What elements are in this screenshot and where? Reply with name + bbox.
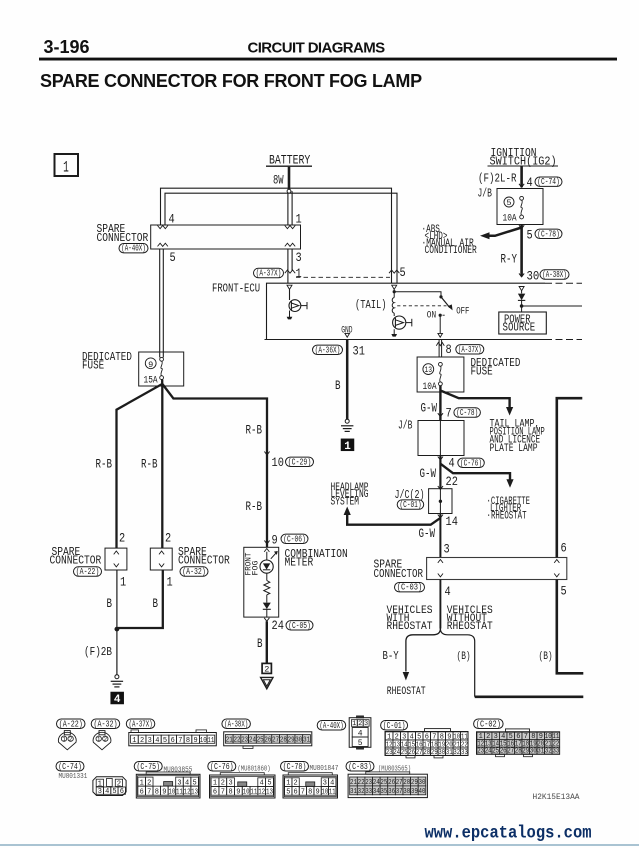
svg-text:2: 2 — [140, 737, 145, 745]
svg-text:1: 1 — [97, 736, 101, 743]
ecu pin 5 entry triangle — [392, 285, 397, 289]
branch arrow to cigarette lighter — [440, 464, 510, 480]
junction relay top — [393, 290, 396, 293]
svg-text:8: 8 — [446, 342, 452, 357]
svg-text:10A: 10A — [503, 212, 517, 223]
dedicated fuse 13 box — [417, 357, 464, 392]
svg-text:23: 23 — [477, 748, 484, 756]
svg-text:8: 8 — [308, 788, 313, 796]
svg-text:1: 1 — [63, 159, 69, 177]
svg-text:25: 25 — [257, 737, 264, 745]
svg-text:(B): (B) — [457, 651, 471, 663]
fuse 10A dedicated — [439, 362, 443, 366]
svg-text:(B): (B) — [539, 651, 553, 663]
svg-text:33: 33 — [461, 749, 468, 757]
svg-text:3: 3 — [98, 788, 103, 796]
svg-text:(A-38X): (A-38X) — [542, 269, 567, 280]
svg-text:5: 5 — [527, 228, 533, 243]
svg-text:38: 38 — [403, 788, 410, 796]
svg-text:CIRCUIT DIAGRAMS: CIRCUIT DIAGRAMS — [248, 40, 386, 57]
svg-text:(A-38X): (A-38X) — [224, 718, 248, 729]
svg-text:29: 29 — [288, 737, 295, 745]
connector label C-05 — [286, 620, 313, 631]
svg-text:11: 11 — [250, 788, 257, 796]
svg-text:(MU801860): (MU801860) — [238, 765, 271, 773]
ground symbol 31 — [345, 419, 349, 423]
J/B box 2 — [418, 421, 464, 456]
svg-text:R-B: R-B — [141, 457, 158, 471]
junction grounds — [115, 627, 120, 632]
svg-text:6: 6 — [213, 788, 218, 796]
wire A-40X pin 5 down to fuse — [159, 249, 161, 358]
wire LED to resistor — [266, 573, 268, 580]
svg-text:10: 10 — [321, 788, 328, 796]
legend connector A-32 drawing — [99, 731, 105, 735]
svg-text:13: 13 — [266, 788, 273, 796]
svg-text:MU803855: MU803855 — [164, 766, 193, 774]
body ground symbol — [261, 677, 273, 688]
wire pin 5 down B — [557, 580, 584, 674]
fuse 10A in J/B — [520, 196, 524, 200]
J/B box with fuse 5 — [497, 189, 543, 225]
legend connector label A-37X — [126, 718, 155, 729]
svg-text:(A-22): (A-22) — [76, 566, 100, 577]
front fog indicator LED — [260, 560, 273, 573]
svg-text:1: 1 — [132, 737, 137, 745]
svg-text:SPARE CONNECTOR FOR FRONT FOG: SPARE CONNECTOR FOR FRONT FOG LAMP — [40, 71, 422, 91]
circled fuse number 9 — [145, 358, 156, 369]
connector label C-01 circuit — [397, 499, 424, 510]
svg-text:9: 9 — [194, 737, 199, 745]
svg-text:4: 4 — [114, 694, 121, 706]
svg-text:(C-74): (C-74) — [58, 761, 82, 772]
svg-text:33: 33 — [552, 748, 559, 756]
wire ignition below J/B R-Y — [520, 225, 523, 277]
dedicated fuse 9 box — [139, 352, 184, 386]
svg-text:ON: ON — [427, 310, 436, 321]
switch ON contact dot — [439, 314, 442, 317]
svg-text:9: 9 — [316, 788, 321, 796]
A-38X pin 30 chevron — [519, 273, 524, 276]
connector label A-32 — [180, 566, 208, 577]
pin 6 chevron — [554, 560, 559, 563]
svg-text:31: 31 — [303, 737, 310, 745]
svg-text:12: 12 — [258, 788, 265, 796]
C-29 pin 10 chevron — [264, 452, 269, 455]
svg-text:2: 2 — [264, 665, 269, 675]
svg-text:R-B: R-B — [246, 424, 263, 438]
svg-text:11: 11 — [329, 788, 336, 796]
legend connector C-02 drawing — [506, 729, 530, 732]
transistor Q1 — [289, 300, 301, 312]
svg-text:CONDITIONER: CONDITIONER — [425, 245, 477, 257]
fuse 15A — [160, 357, 164, 361]
svg-text:MU801847: MU801847 — [310, 765, 339, 773]
C-74 pin 4 chevron — [519, 184, 524, 187]
svg-text:30: 30 — [527, 268, 540, 283]
svg-text:31: 31 — [446, 749, 453, 757]
svg-text:5: 5 — [358, 739, 363, 748]
svg-text:SYSTEM: SYSTEM — [331, 496, 360, 508]
LED arrow — [271, 553, 276, 559]
wire pin5 to relay node — [393, 289, 395, 291]
figure number box 1 — [55, 154, 79, 176]
branch arrow to tail lamp — [440, 391, 509, 408]
wire ignition feed — [520, 167, 523, 188]
svg-text:5: 5 — [506, 198, 511, 208]
svg-text:5: 5 — [286, 788, 291, 796]
svg-text:6: 6 — [120, 788, 125, 796]
arrow to rheostat — [403, 672, 410, 681]
pin 5 chevron — [158, 243, 168, 246]
svg-text:H2K15E13AA: H2K15E13AA — [533, 792, 581, 802]
wire to body ground (F)2B — [116, 629, 118, 675]
pin 5 chevron — [554, 574, 559, 577]
combination meter box — [244, 547, 279, 617]
wire thick right to pin 6 — [557, 398, 583, 557]
ecu pin 1 entry triangle — [287, 285, 292, 289]
svg-text:3: 3 — [296, 250, 302, 265]
svg-text:37: 37 — [396, 788, 403, 796]
bottom blue rule — [0, 844, 639, 846]
svg-text:(C-76): (C-76) — [460, 457, 482, 468]
svg-text:4: 4 — [105, 788, 110, 796]
switch blade to OFF — [441, 297, 450, 308]
svg-text:7: 7 — [178, 737, 182, 745]
legend connector label C-78 — [281, 761, 309, 772]
wire pin 4 down — [439, 580, 441, 629]
legend connector A-38X drawing — [224, 732, 312, 746]
svg-text:·RHEOSTAT: ·RHEOSTAT — [487, 510, 527, 522]
svg-text:G-W: G-W — [419, 527, 436, 541]
svg-text:(C-76): (C-76) — [210, 761, 234, 772]
svg-text:RHEOSTAT: RHEOSTAT — [387, 621, 433, 633]
svg-text:8W: 8W — [273, 173, 284, 188]
svg-text:(C-01): (C-01) — [383, 720, 406, 731]
circled fuse number 13 — [423, 364, 434, 375]
svg-text:(C-75): (C-75) — [136, 761, 160, 772]
wire fuse9 left branch R-B — [117, 380, 163, 549]
legend connector label C-02 — [474, 718, 504, 729]
svg-text:36: 36 — [388, 788, 395, 796]
wire bus second line — [165, 193, 397, 283]
legend connector label A-22 — [57, 718, 86, 729]
svg-text:23: 23 — [386, 749, 393, 757]
pin 4 chevron — [158, 226, 168, 229]
A-37X pin 8 wires — [438, 340, 440, 358]
svg-text:OFF: OFF — [456, 306, 469, 317]
wire A-22 pin1 B — [116, 570, 118, 629]
svg-text:3: 3 — [364, 720, 368, 727]
svg-text:2: 2 — [119, 531, 125, 546]
legend connector label C-74 — [56, 761, 84, 772]
svg-text:3-196: 3-196 — [44, 37, 90, 57]
legend connector A-40X drawing — [349, 718, 371, 748]
svg-text:4: 4 — [155, 737, 160, 745]
connector label A-36X — [313, 344, 343, 355]
ground ref blackbox 1 — [341, 439, 355, 452]
svg-text:3: 3 — [148, 737, 153, 745]
svg-text:(C-05): (C-05) — [288, 620, 311, 631]
svg-text:G-W: G-W — [421, 402, 438, 416]
wire into LED — [266, 552, 268, 560]
svg-text:24: 24 — [393, 749, 400, 757]
meter pin 9 chevron — [264, 549, 269, 552]
svg-text:www.epcatalogs.com: www.epcatalogs.com — [425, 824, 592, 844]
svg-text:2: 2 — [69, 736, 73, 743]
svg-text:27: 27 — [507, 748, 514, 756]
svg-text:40: 40 — [419, 788, 426, 796]
spare connector C-03 box — [427, 558, 567, 580]
A-37X pin 1 chevron — [285, 270, 295, 273]
svg-text:28: 28 — [515, 748, 522, 756]
svg-text:10: 10 — [200, 737, 207, 745]
wire battery feed 8W — [288, 167, 291, 190]
svg-text:9: 9 — [148, 360, 153, 370]
junction dot in J/C — [439, 500, 442, 503]
legend connector A-22 drawing — [64, 731, 70, 735]
svg-text:(C-83): (C-83) — [348, 761, 372, 772]
svg-text:1: 1 — [167, 575, 173, 590]
svg-text:B: B — [107, 597, 113, 611]
A-37X pin 5 chevron — [389, 270, 399, 273]
svg-text:7: 7 — [446, 406, 452, 421]
pin 1 chevron — [285, 226, 295, 229]
C-01 pin 14 chevron — [438, 515, 443, 518]
ground ref box 2 — [262, 663, 271, 673]
FRONT-ECU box outline — [267, 283, 546, 339]
pin 3 chevron — [285, 243, 295, 246]
branch arrow to ABS — [490, 228, 522, 236]
svg-text:15A: 15A — [144, 374, 158, 385]
svg-text:31: 31 — [537, 748, 544, 756]
svg-text:2: 2 — [103, 736, 107, 743]
pin 4 chevron — [438, 574, 443, 577]
svg-text:METER: METER — [285, 557, 314, 570]
svg-text:10: 10 — [168, 788, 175, 796]
legend connector C-01 drawing — [425, 729, 451, 732]
connector label C-03 — [395, 582, 425, 593]
svg-text:5: 5 — [170, 250, 176, 265]
legend connector label C-76 — [208, 761, 236, 772]
svg-text:22: 22 — [446, 474, 458, 489]
svg-text:CONNECTOR: CONNECTOR — [374, 568, 424, 581]
svg-text:22: 22 — [234, 737, 241, 745]
C-01 pin 22 chevron — [438, 486, 443, 489]
legend connector A-37X drawing — [129, 733, 217, 746]
connector label C-06 — [281, 533, 308, 544]
svg-text:(C-06): (C-06) — [283, 533, 306, 544]
legend connector label C-01 — [381, 720, 408, 731]
svg-text:9: 9 — [162, 788, 167, 796]
svg-text:2: 2 — [358, 720, 362, 727]
svg-text:24: 24 — [485, 748, 492, 756]
svg-text:(C-78): (C-78) — [456, 407, 478, 418]
svg-text:(A-37X): (A-37X) — [256, 268, 282, 279]
svg-text:R-B: R-B — [96, 457, 113, 471]
ecu gnd exit triangle — [345, 333, 350, 337]
wire JC to C-03 — [439, 514, 441, 558]
wire fuse13 down G-W — [439, 386, 441, 421]
svg-text:9: 9 — [272, 533, 278, 548]
connector label C-78 lower — [454, 407, 481, 418]
svg-text:(A-37X): (A-37X) — [129, 718, 153, 729]
svg-text:R-B: R-B — [246, 500, 263, 514]
svg-text:32: 32 — [358, 788, 365, 796]
svg-text:5: 5 — [163, 737, 168, 745]
svg-text:(C-02): (C-02) — [476, 718, 501, 729]
legend connector C-83 drawing — [348, 774, 427, 797]
svg-text:(C-01): (C-01) — [400, 499, 422, 510]
svg-text:B-Y: B-Y — [383, 650, 399, 663]
wire pin1 to transistor — [289, 289, 291, 300]
svg-text:MU801331: MU801331 — [59, 773, 88, 781]
svg-text:14: 14 — [446, 514, 459, 529]
svg-text:21: 21 — [226, 737, 233, 745]
ecu switch exit triangle — [438, 333, 443, 337]
svg-text:34: 34 — [373, 788, 380, 796]
connector label C-74 — [535, 176, 562, 187]
svg-text:2: 2 — [165, 531, 171, 546]
svg-text:RHEOSTAT: RHEOSTAT — [387, 686, 426, 698]
connector label A-40X — [119, 243, 148, 254]
svg-text:B: B — [335, 379, 341, 393]
svg-text:31: 31 — [353, 344, 366, 359]
svg-text:1: 1 — [120, 575, 126, 590]
legend connector C-75 drawing — [136, 774, 200, 798]
svg-text:9: 9 — [236, 788, 241, 796]
connector label A-22 — [74, 566, 102, 577]
legend connector label C-83 — [346, 761, 374, 772]
svg-text:(A-37X): (A-37X) — [458, 344, 482, 355]
svg-text:J/B: J/B — [398, 419, 412, 433]
svg-text:7: 7 — [301, 788, 305, 796]
wire B ground from ECU — [346, 340, 349, 420]
wire diode to meter bottom — [266, 609, 268, 617]
wire coil to Q2 — [393, 313, 395, 316]
header rule — [39, 58, 617, 61]
wire through J/C — [439, 489, 441, 514]
svg-text:13: 13 — [425, 366, 433, 375]
legend connector C-78 drawing — [283, 775, 338, 798]
svg-text:12: 12 — [184, 788, 191, 796]
svg-text:8: 8 — [186, 737, 191, 745]
POWER SOURCE box — [499, 312, 547, 334]
resistor in meter — [264, 581, 270, 595]
svg-text:BATTERY: BATTERY — [269, 153, 310, 168]
svg-text:(F)2L-R: (F)2L-R — [478, 173, 517, 186]
A-37X pin 8 chevron — [436, 343, 444, 346]
svg-text:27: 27 — [272, 737, 279, 745]
svg-text:5: 5 — [400, 265, 406, 280]
circled fuse number 5 — [504, 197, 514, 207]
switch common junction — [439, 295, 442, 298]
spare connector A-32 box — [150, 548, 172, 570]
svg-text:11: 11 — [207, 737, 214, 745]
svg-text:10: 10 — [243, 788, 250, 796]
svg-text:6: 6 — [171, 737, 176, 745]
svg-text:32: 32 — [453, 749, 460, 757]
legend connector label C-75 — [134, 761, 162, 772]
svg-text:24: 24 — [249, 737, 256, 745]
svg-text:27: 27 — [416, 749, 423, 757]
svg-text:39: 39 — [411, 788, 418, 796]
svg-text:8: 8 — [229, 788, 234, 796]
svg-text:3: 3 — [444, 542, 450, 557]
junction power node — [520, 304, 524, 308]
wire diode to node — [521, 300, 523, 311]
wire meter ground B — [266, 621, 268, 663]
svg-text:32: 32 — [545, 748, 552, 756]
C-06 pin 9 chevron — [264, 541, 269, 544]
svg-text:5: 5 — [112, 788, 117, 796]
svg-text:10A: 10A — [423, 381, 437, 392]
svg-text:PLATE LAMP: PLATE LAMP — [490, 443, 538, 455]
svg-text:FUSE: FUSE — [82, 360, 104, 373]
svg-text:35: 35 — [380, 788, 387, 796]
svg-text:(C-78): (C-78) — [283, 761, 307, 772]
spare connector A-22 box — [105, 548, 127, 570]
svg-text:10: 10 — [272, 455, 284, 470]
svg-text:1: 1 — [62, 736, 66, 743]
svg-text:(A-36X): (A-36X) — [315, 344, 341, 355]
wire A-40X pin 3 down to A-37X pin 1 — [287, 249, 289, 283]
svg-text:26: 26 — [264, 737, 271, 745]
svg-text:28: 28 — [280, 737, 287, 745]
svg-text:4: 4 — [169, 212, 175, 227]
wire Q1 emitter to internal ground — [289, 311, 291, 318]
svg-text:6: 6 — [561, 541, 567, 556]
ground ref blackbox 4 — [110, 692, 124, 705]
ecu ignition entry triangle — [519, 287, 524, 291]
svg-text:4: 4 — [527, 175, 533, 190]
svg-text:G-W: G-W — [420, 467, 437, 481]
svg-text:J/B: J/B — [478, 186, 492, 200]
pin 3 chevron — [438, 560, 443, 563]
connector label C-78 — [535, 228, 562, 239]
svg-text:(A-32): (A-32) — [94, 718, 118, 729]
wire A-32 pin1 B thick — [118, 570, 163, 628]
svg-text:RHEOSTAT: RHEOSTAT — [447, 621, 493, 633]
svg-text:6: 6 — [294, 788, 299, 796]
C-76 pin 4 chevron — [438, 457, 443, 460]
svg-text:(TAIL): (TAIL) — [355, 298, 387, 312]
legend connector label A-40X — [317, 720, 346, 731]
connector label C-76 — [458, 457, 485, 468]
dashed connector line A-37X — [296, 276, 390, 278]
legend connector label A-32 — [91, 718, 120, 729]
svg-text:30: 30 — [295, 737, 302, 745]
legend connector C-76 drawing — [210, 775, 276, 798]
ground symbol 4 — [115, 675, 119, 679]
C-78 pin 7 chevron — [438, 413, 443, 416]
svg-text:(F)2B: (F)2B — [84, 646, 112, 659]
connector label C-29 — [286, 456, 314, 467]
wire switch out to ecu bottom — [439, 315, 441, 333]
svg-text:(A-22): (A-22) — [59, 718, 83, 729]
diode in meter — [263, 603, 271, 609]
meter pin 24 chevron — [264, 618, 269, 621]
svg-text:(C-29): (C-29) — [288, 456, 312, 467]
wire bus top line — [161, 188, 392, 283]
spare connector A-40X box — [151, 225, 301, 249]
svg-text:4: 4 — [449, 456, 455, 471]
svg-text:5: 5 — [561, 584, 567, 599]
svg-text:SOURCE: SOURCE — [503, 322, 536, 335]
junction battery bus — [287, 189, 291, 193]
wire power node to page edge — [522, 305, 582, 307]
svg-text:B: B — [153, 597, 159, 611]
